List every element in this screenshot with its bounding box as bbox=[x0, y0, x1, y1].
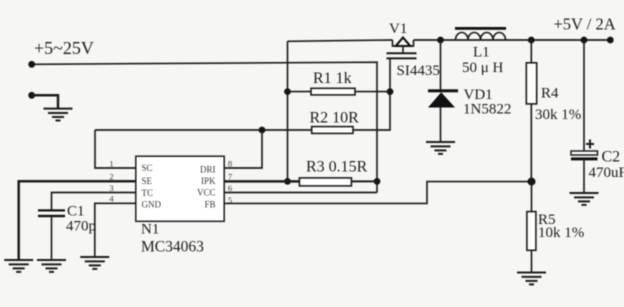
wire switch node to diode bbox=[440, 40, 442, 90]
node FB divider junction bbox=[528, 178, 536, 186]
wire pin8 DRI riser bbox=[224, 130, 262, 168]
svg-text:470p: 470p bbox=[66, 219, 96, 235]
diode VD1 bbox=[428, 89, 458, 141]
svg-text:50 μ H: 50 μ H bbox=[462, 60, 504, 76]
resistor R5 bbox=[527, 182, 536, 272]
svg-text:N1: N1 bbox=[141, 222, 159, 238]
svg-text:C1: C1 bbox=[67, 204, 85, 220]
transistor V1 center post bbox=[402, 46, 404, 53]
svg-text:TC: TC bbox=[142, 188, 154, 198]
ground pin4 bbox=[80, 257, 109, 269]
svg-text:1N5822: 1N5822 bbox=[463, 102, 511, 118]
capacitor C1 bbox=[38, 209, 65, 259]
wire pin7 IPK bbox=[224, 180, 299, 183]
svg-text:R4: R4 bbox=[541, 86, 559, 102]
resistor R2 bbox=[95, 127, 353, 134]
node Vin / VCC / R3 right bbox=[374, 178, 381, 185]
svg-text:10k 1%: 10k 1% bbox=[538, 225, 584, 241]
wire pin5 FB to divider bbox=[224, 182, 532, 204]
svg-text:DRI: DRI bbox=[200, 165, 216, 175]
wire top rail to MOSFET source bbox=[288, 40, 393, 41]
node output C2 tap bbox=[581, 37, 588, 44]
node R1 left on bus bbox=[284, 88, 291, 95]
svg-text:470uF: 470uF bbox=[589, 165, 624, 181]
node DRI/SC junction bbox=[259, 127, 266, 134]
svg-text:30k 1%: 30k 1% bbox=[535, 107, 581, 123]
resistor R4 bbox=[526, 40, 536, 182]
node output R4 tap bbox=[528, 37, 535, 44]
svg-text:4: 4 bbox=[109, 194, 114, 204]
svg-text:5: 5 bbox=[228, 195, 232, 205]
node gate / R1 right bbox=[387, 88, 394, 95]
svg-text:MC34063: MC34063 bbox=[141, 239, 204, 256]
inductor L1 core bar bbox=[455, 27, 506, 30]
ground VD1 bbox=[426, 142, 455, 154]
ground input bbox=[44, 109, 73, 121]
svg-text:R3 0.15R: R3 0.15R bbox=[306, 159, 368, 176]
resistor R3 bbox=[299, 178, 377, 186]
svg-text:SE: SE bbox=[142, 176, 153, 186]
svg-text:R1 1k: R1 1k bbox=[313, 70, 352, 87]
node input ground terminal bbox=[28, 92, 35, 99]
wire pin3 TC bbox=[52, 193, 137, 210]
svg-text:3: 3 bbox=[109, 183, 113, 193]
svg-text:R2 10R: R2 10R bbox=[310, 109, 360, 126]
svg-text:VCC: VCC bbox=[197, 188, 216, 198]
wire vertical bus x287 (switch source node) bbox=[287, 41, 289, 181]
svg-text:SI4435: SI4435 bbox=[397, 63, 440, 79]
svg-text:2: 2 bbox=[109, 172, 113, 182]
transistor V1 body arrow bbox=[396, 38, 410, 47]
svg-text:SC: SC bbox=[142, 163, 153, 173]
wire pin2 SE to ground bbox=[19, 181, 136, 259]
wire top rail MOSFET drain to output bbox=[414, 39, 611, 41]
node output terminal bbox=[607, 37, 614, 44]
svg-text:V1: V1 bbox=[389, 21, 407, 37]
op-amp U1 IC box N1 MC34063 bbox=[136, 156, 224, 221]
svg-text:C2: C2 bbox=[602, 149, 621, 166]
resistor R1 bbox=[288, 88, 391, 95]
svg-text:GND: GND bbox=[142, 200, 162, 210]
node switch node bbox=[437, 37, 444, 44]
wire pin6 VCC bbox=[224, 192, 377, 194]
svg-text:FB: FB bbox=[204, 200, 215, 210]
svg-text:IPK: IPK bbox=[201, 176, 216, 186]
svg-text:1: 1 bbox=[109, 159, 113, 169]
svg-text:7: 7 bbox=[228, 172, 232, 182]
ground R5 bbox=[517, 273, 546, 285]
ground C1 bbox=[37, 260, 66, 272]
ground SE bbox=[4, 260, 33, 272]
wire pin4 GND to ground bbox=[95, 203, 136, 256]
svg-text:+5V / 2A: +5V / 2A bbox=[554, 15, 616, 34]
transistor V1 channel bar bbox=[387, 52, 417, 54]
svg-text:6: 6 bbox=[228, 183, 232, 193]
wire input ground stub bbox=[32, 95, 58, 108]
node IPK on bus bbox=[284, 178, 291, 185]
inductor L1 windings bbox=[456, 33, 506, 41]
C2 polarity plus bbox=[586, 140, 594, 149]
svg-text:+5~25V: +5~25V bbox=[34, 38, 94, 58]
capacitor C2 bbox=[571, 40, 598, 193]
transistor V1 gate bar bbox=[387, 57, 417, 59]
wire pin1 SC riser bbox=[95, 130, 136, 168]
node input terminal bbox=[28, 61, 35, 68]
wire MOSFET notch bbox=[393, 40, 414, 46]
ground C2 bbox=[570, 193, 599, 205]
svg-text:L1: L1 bbox=[473, 45, 490, 61]
svg-text:8: 8 bbox=[228, 159, 232, 169]
wire input rail +5~25V bbox=[32, 62, 377, 192]
wire gate lead down bbox=[353, 59, 390, 130]
